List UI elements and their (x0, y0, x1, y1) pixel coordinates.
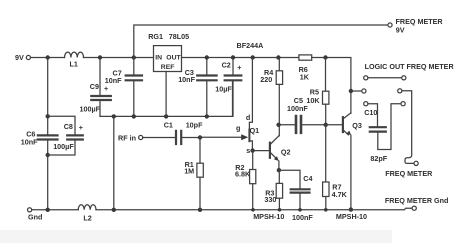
regulator RG1 78L05 (154, 46, 182, 72)
JFET Q1 drain wire (249, 58, 252, 131)
junction gnd/C4 (298, 208, 302, 212)
capacitor C4 (279, 170, 300, 188)
pin row2 left (364, 102, 368, 106)
transistor Q3 (342, 117, 344, 132)
transistor Q2 (269, 143, 271, 158)
9V input terminal (26, 55, 30, 59)
junction gnd/R7 (324, 208, 328, 212)
capacitor C10 (370, 127, 386, 131)
svg-text:100µF: 100µF (53, 142, 74, 151)
svg-text:L1: L1 (70, 60, 78, 69)
junction bus/C3 (205, 114, 209, 118)
svg-text:C2: C2 (222, 61, 231, 70)
svg-text:100nF: 100nF (287, 104, 308, 113)
JFET Q1 (248, 130, 250, 142)
svg-text:C8: C8 (64, 122, 73, 131)
capacitor C5 (279, 124, 295, 126)
junction bus/C7 (132, 114, 136, 118)
junction gnd/R2 (251, 208, 255, 212)
junction C6/C8 bottom (46, 153, 50, 157)
svg-text:MPSH-10: MPSH-10 (253, 212, 284, 221)
junction rail/Q1 drain (251, 55, 255, 59)
svg-text:RF in: RF in (118, 134, 136, 143)
svg-text:C4: C4 (303, 174, 312, 183)
wire RF in to C1 (143, 137, 175, 139)
junction bus/drop (112, 114, 116, 118)
resistor R2 (252, 151, 254, 170)
svg-text:10nF: 10nF (178, 75, 195, 84)
resistor R1 (199, 138, 201, 164)
capacitor C1 (176, 131, 181, 144)
junction C1/R1/gate (198, 135, 202, 139)
resistor R6 (299, 55, 312, 60)
junction bus/REF (164, 114, 168, 118)
svg-text:LOGIC OUT FREQ METER: LOGIC OUT FREQ METER (365, 62, 455, 71)
junction 9V/C9 (98, 55, 102, 59)
wire drop bus to gnd rail (113, 116, 115, 209)
svg-text:Q1: Q1 (250, 126, 260, 135)
junction rail/C3 (205, 55, 209, 59)
svg-text:9V: 9V (15, 53, 24, 62)
svg-text:s: s (246, 146, 250, 155)
svg-text:1K: 1K (300, 73, 310, 82)
terminal FREQ METER 9V (388, 23, 392, 27)
wire Q1 source to Q2 base (252, 150, 268, 152)
junction C6/C8 top (46, 114, 50, 118)
capacitor C2 (232, 58, 234, 75)
svg-text:C10: C10 (364, 108, 377, 117)
svg-text:10pF: 10pF (186, 121, 203, 130)
junction Q3 emitter/gnd (349, 207, 353, 211)
junction source/R2 (250, 148, 254, 152)
inductor L2 (78, 205, 96, 210)
svg-text:4.7K: 4.7K (332, 190, 348, 199)
junction rail/R5 (323, 55, 327, 59)
junction R5/R7/base (324, 123, 328, 127)
pin pair row0 with link wire (364, 76, 368, 80)
svg-text:C1: C1 (164, 121, 173, 130)
junction gnd/C6 (46, 208, 50, 212)
wire gnd rail left (32, 209, 78, 211)
wire 9V rail to regulator (84, 57, 154, 59)
capacitor C9 (99, 58, 101, 96)
svg-text:6.8K: 6.8K (235, 169, 251, 178)
RF in terminal (139, 135, 143, 139)
svg-text:IN: IN (155, 54, 162, 61)
junction gnd/R1 (198, 208, 202, 212)
junction rail/R4 (276, 55, 280, 59)
svg-text:OUT: OUT (166, 54, 181, 61)
wire 5V rail (182, 57, 299, 59)
svg-text:82pF: 82pF (370, 154, 387, 163)
terminal FREQ METER (414, 161, 418, 165)
svg-text:1M: 1M (184, 167, 194, 176)
svg-text:Q3: Q3 (352, 121, 362, 130)
svg-text:220: 220 (260, 75, 272, 84)
junction 9V/C7/top-wire (132, 55, 136, 59)
inductor L1 (65, 52, 84, 57)
junction rail/C2 (231, 55, 235, 59)
svg-text:d: d (246, 113, 250, 122)
pin row1 left (logic out) (353, 90, 362, 92)
svg-text:+: + (104, 84, 108, 93)
svg-text:10µF: 10µF (215, 84, 232, 93)
svg-text:L2: L2 (83, 213, 91, 222)
capacitor C7 (133, 58, 135, 75)
wire rail after R6 (312, 58, 351, 114)
svg-text:C9: C9 (90, 82, 99, 91)
wire to FREQ METER 9V (134, 25, 388, 58)
svg-text:+: + (79, 123, 83, 132)
svg-text:FREQ METER Gnd: FREQ METER Gnd (385, 196, 449, 205)
svg-text:g: g (236, 124, 240, 133)
resistor R4 (278, 58, 280, 71)
svg-text:MPSH-10: MPSH-10 (336, 212, 367, 221)
terminal FREQ METER Gnd (412, 206, 416, 210)
bottom gray band (0, 230, 392, 243)
svg-text:9V: 9V (396, 26, 405, 35)
wire REF lead (165, 72, 167, 117)
svg-text:10nF: 10nF (105, 76, 122, 85)
svg-text:BF244A: BF244A (237, 41, 264, 50)
capacitor C6 (47, 58, 49, 135)
svg-text:RG1: RG1 (148, 32, 163, 41)
resistor R7 (325, 125, 327, 182)
svg-text:330: 330 (264, 195, 276, 204)
svg-text:78L05: 78L05 (169, 32, 189, 41)
junction 9V/C6 (46, 55, 50, 59)
resistor R5 (325, 58, 327, 92)
svg-text:FREQ METER: FREQ METER (385, 169, 433, 178)
svg-text:100µF: 100µF (80, 104, 101, 113)
svg-text:+: + (237, 63, 241, 72)
pin row2 right (401, 102, 405, 106)
ground bus (100, 81, 233, 116)
capacitor C8 (48, 116, 75, 134)
junction Q2 collector / C5 (276, 123, 280, 127)
svg-text:FREQ METER: FREQ METER (396, 17, 444, 26)
svg-text:REF: REF (161, 64, 175, 71)
resistor R3 (278, 170, 280, 183)
junction Q3 collector pin tap (349, 89, 353, 93)
junction gnd/drop (112, 208, 116, 212)
svg-text:100nF: 100nF (292, 213, 313, 222)
capacitor C3 (206, 58, 208, 75)
junction Q2 emitter node (277, 168, 281, 172)
pin row1 right to FREQ METER out (398, 89, 402, 93)
svg-text:Q2: Q2 (281, 148, 291, 157)
junction gnd/R3 (278, 208, 282, 212)
wire gnd rail right (96, 208, 412, 210)
svg-text:Gnd: Gnd (28, 213, 42, 222)
Gnd terminal (28, 208, 32, 212)
svg-text:10K: 10K (306, 96, 320, 105)
svg-text:10nF: 10nF (21, 138, 38, 147)
wire 9V rail left (31, 57, 65, 59)
